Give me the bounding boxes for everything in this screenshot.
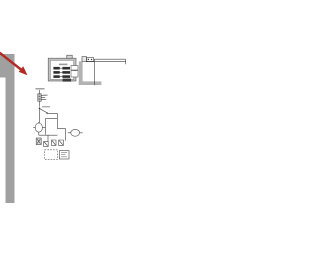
gray harness band vertical <box>79 61 83 85</box>
gray sidebar upper segment <box>0 54 15 77</box>
fuse panel connector row 1 <box>53 67 70 70</box>
fuse panel connector row 3 <box>53 75 70 78</box>
headlight switch label <box>36 88 45 89</box>
wire mesh inside selection <box>39 119 66 142</box>
starter relay dashed box <box>45 150 69 160</box>
fuse panel block <box>48 55 76 81</box>
gray sidebar lower segment <box>6 77 15 203</box>
small lamp symbol row 1 <box>36 138 41 145</box>
starter relay small box <box>87 57 94 61</box>
small lamp symbol row 4 <box>59 140 64 145</box>
wire drop from panel <box>93 59 95 85</box>
red annotation arrow <box>0 52 28 76</box>
wire top bus 1 <box>86 61 126 63</box>
small lamp symbol row 2 <box>44 141 49 146</box>
headlight switch S1 <box>38 90 48 107</box>
fuse panel connector row 2 <box>53 71 70 74</box>
distributor node ellipse <box>68 129 83 136</box>
dimmer switch S2 <box>39 106 58 123</box>
circuit breaker small box <box>82 57 87 62</box>
panel side connector box B <box>71 71 78 77</box>
ignition switch node circle <box>33 122 45 135</box>
small lamp symbol row 3 <box>51 140 56 145</box>
wire top bus 2 <box>94 59 125 64</box>
gray harness band horizontal <box>79 81 102 85</box>
fuse panel bottom dark connector <box>63 79 71 82</box>
panel side connector box A <box>71 66 78 70</box>
SCHEMATIC <box>33 55 126 159</box>
